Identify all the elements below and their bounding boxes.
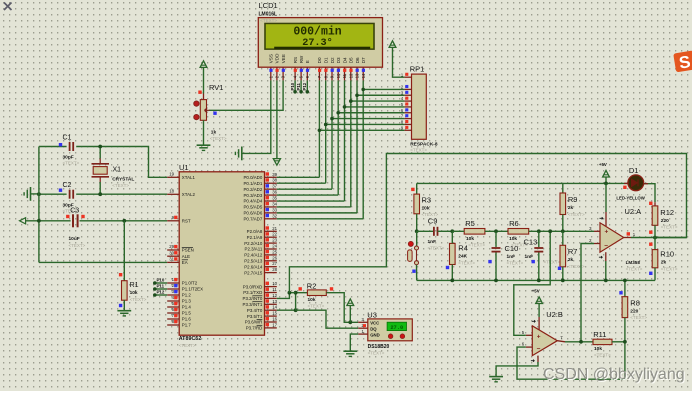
svg-text:R5: R5 — [465, 219, 475, 228]
svg-text:AT89C52: AT89C52 — [179, 336, 202, 342]
svg-text:12: 12 — [348, 73, 353, 78]
svg-text:<TEXT>: <TEXT> — [544, 259, 561, 264]
wire XTAL2/C2 row — [39, 193, 167, 195]
svg-text:R11: R11 — [593, 330, 606, 339]
svg-text:−: − — [537, 346, 541, 353]
wire RV1 bottom to ground — [203, 120, 205, 145]
svg-text:D6: D6 — [355, 57, 360, 63]
svg-text:D5: D5 — [349, 57, 354, 63]
pin 33 P0.6/AD6 of U1 — [265, 212, 277, 214]
wire RST row left of C3 — [26, 220, 71, 222]
pin 3 P1.2 of U1 — [167, 294, 179, 296]
svg-text:24K: 24K — [458, 253, 467, 259]
power +5V for RV1 — [200, 61, 207, 68]
wire R2 right to VCC node — [326, 293, 358, 323]
pin 4 of RP1 — [404, 100, 411, 102]
wire +5V to RV1 — [203, 67, 205, 93]
pin 10 P3.0/RXD of U1 — [265, 286, 277, 288]
svg-text:P3.4/T0: P3.4/T0 — [247, 308, 263, 313]
junction D1 bus — [324, 123, 328, 127]
wire P10 net stub — [294, 80, 296, 91]
junction D5 bus — [349, 99, 353, 103]
svg-text:P2.7/A15: P2.7/A15 — [244, 270, 263, 275]
wire C1 row to XTAL1 — [39, 147, 167, 178]
pin 5 of U2:B — [526, 334, 533, 336]
pin marker P1.1 — [174, 284, 177, 287]
svg-text:P2.0/A8: P2.0/A8 — [247, 229, 263, 234]
svg-text:D4: D4 — [342, 57, 347, 63]
svg-text:C13: C13 — [524, 237, 538, 246]
svg-text:P3.5/T1: P3.5/T1 — [247, 314, 263, 319]
wire LCD D3 to RP1 pin6 and P0.3 — [337, 80, 339, 112]
wire R1 bottom — [123, 300, 125, 311]
svg-text:<TEXT>: <TEXT> — [468, 242, 485, 247]
svg-text:<TEXT>: <TEXT> — [63, 161, 80, 166]
svg-text:P2.4/A12: P2.4/A12 — [244, 253, 263, 258]
pin 9 RST of U1 — [167, 220, 179, 222]
svg-text:P3.7/RD: P3.7/RD — [246, 326, 263, 331]
pin 2 of U3 — [358, 327, 368, 329]
svg-text:R6: R6 — [509, 219, 519, 228]
svg-text:+5V: +5V — [532, 289, 540, 294]
junction output/R12/R10 — [653, 236, 657, 240]
svg-text:LCD1: LCD1 — [259, 1, 278, 10]
svg-text:11: 11 — [342, 73, 347, 78]
wire U2:A V- to rail — [605, 252, 607, 261]
svg-text:10uF: 10uF — [69, 236, 80, 242]
pin marker 31 — [174, 257, 177, 260]
wire P3.4/T0 row — [277, 309, 296, 311]
svg-text:<TEXT>: <TEXT> — [428, 246, 445, 251]
junction R1 tap on RST row — [122, 219, 126, 223]
wire P12 net stub — [306, 80, 308, 91]
svg-text:10k: 10k — [422, 205, 430, 211]
pin 7 output of U2:B — [557, 341, 565, 342]
pin 26 P2.5/A13 of U1 — [265, 260, 277, 262]
svg-text:R1: R1 — [130, 282, 139, 289]
svg-text:13: 13 — [355, 73, 360, 78]
svg-text:11: 11 — [272, 287, 277, 292]
svg-text:<TEXT>: <TEXT> — [308, 303, 325, 308]
svg-text:1k: 1k — [211, 129, 217, 135]
svg-text:13: 13 — [272, 299, 277, 304]
pin 13 P3.3/INT1 of U1 — [265, 303, 277, 305]
svg-text:PSEN: PSEN — [182, 248, 194, 253]
svg-text:<TEXT>: <TEXT> — [661, 266, 678, 271]
ground for U2:B — [489, 376, 503, 378]
wire bottom rail — [417, 279, 655, 281]
pin 28 P2.7/A15 of U1 — [265, 272, 277, 274]
svg-text:29: 29 — [169, 244, 174, 249]
svg-text:EA: EA — [182, 260, 188, 265]
svg-text:15: 15 — [272, 311, 277, 316]
svg-text:C2: C2 — [63, 182, 72, 189]
pin 1 output of U2:A — [624, 237, 631, 239]
wire LCD D4 to RP1 pin5 and P0.4 — [344, 80, 346, 107]
pin 3 of U2:A — [594, 230, 600, 232]
svg-text:GND: GND — [370, 332, 380, 337]
net label P12 wire — [155, 294, 167, 296]
pin 24 P2.3/A11 of U1 — [265, 248, 277, 250]
pin 2 P1.1/T2EX of U1 — [167, 288, 179, 290]
svg-text:R7: R7 — [568, 247, 578, 256]
wire D1 cathode to R12 — [644, 184, 655, 203]
resistor R12 — [649, 202, 652, 205]
svg-text:12: 12 — [272, 293, 277, 298]
pin marker P1.3 — [174, 296, 177, 299]
svg-text:X1: X1 — [113, 167, 122, 174]
svg-text:CRYSTAL: CRYSTAL — [112, 176, 134, 182]
svg-text:P2.5/A13: P2.5/A13 — [244, 259, 263, 264]
ground below U3 — [343, 350, 357, 352]
svg-text:P2.1/A9: P2.1/A9 — [247, 235, 263, 240]
svg-text:17: 17 — [272, 322, 277, 327]
svg-text:E: E — [305, 60, 310, 63]
pin 22 P2.1/A9 of U1 — [265, 236, 277, 238]
pin 23 P2.2/A10 of U1 — [265, 242, 277, 244]
pin marker 9 — [174, 216, 177, 219]
pin 36 P0.3/AD3 of U1 — [265, 194, 277, 196]
wire U2:A output row — [631, 237, 687, 239]
svg-text:<TEXT>: <TEXT> — [69, 243, 86, 248]
svg-text:R9: R9 — [568, 195, 578, 204]
junction T0/R2/DQ — [294, 308, 298, 312]
svg-text:R2: R2 — [307, 282, 317, 291]
svg-text:32: 32 — [272, 213, 277, 218]
pin 39 P0.0/AD0 of U1 — [265, 176, 277, 178]
svg-text:<TEXT>: <TEXT> — [130, 297, 147, 302]
svg-text:P1.1/T2EX: P1.1/T2EX — [182, 287, 203, 292]
wire U3 GND to ground — [350, 334, 358, 351]
svg-text:R10: R10 — [660, 250, 674, 259]
junction R11/R8/feedback — [623, 340, 627, 344]
wire mic bottom to rail — [416, 265, 418, 281]
wire LCD D5 to RP1 pin4 and P0.5 — [350, 80, 352, 101]
pin 25 P2.4/A12 of U1 — [265, 254, 277, 256]
junction X1 bottom — [98, 192, 102, 196]
svg-text:<TEXT>: <TEXT> — [210, 136, 227, 141]
svg-text:19: 19 — [169, 172, 174, 177]
wire DQ from T0 junction — [296, 310, 359, 328]
wire VDD to terminal — [276, 80, 278, 158]
svg-text:LED-YELLOW: LED-YELLOW — [616, 195, 645, 200]
svg-text:C1: C1 — [63, 135, 72, 142]
wire +5V rail — [417, 182, 630, 184]
svg-text:220: 220 — [661, 218, 669, 224]
junction C9/R4/R5 — [450, 229, 454, 233]
logo S — [673, 50, 692, 73]
svg-text:LM358: LM358 — [626, 260, 641, 265]
svg-text:27: 27 — [272, 261, 277, 266]
svg-text:+: + — [605, 229, 609, 236]
pin 3 of RP1 — [404, 94, 411, 96]
svg-text:U1: U1 — [179, 163, 189, 172]
junction D7 bus — [361, 88, 365, 92]
pin 18 XTAL2 of U1 — [167, 193, 179, 195]
net label P11 wire — [155, 288, 167, 290]
svg-text:VDD: VDD — [275, 53, 280, 63]
wire VSS to ground — [242, 80, 271, 153]
wire VEE to RV1 wiper — [209, 80, 283, 110]
wire RST row right of C3 — [80, 220, 168, 222]
svg-text:36: 36 — [272, 190, 277, 195]
svg-text:D0: D0 — [317, 57, 322, 63]
junction D4 bus — [343, 105, 347, 109]
svg-text:R4: R4 — [458, 243, 468, 252]
wire P11 net stub — [300, 80, 302, 91]
svg-text:<TEXT>: <TEXT> — [661, 225, 678, 230]
pin 21 P2.0/A8 of U1 — [265, 230, 277, 232]
wire INT0 jog — [277, 293, 296, 299]
pin 29 PSEN of U1 — [167, 249, 179, 251]
crystal X1 — [99, 147, 101, 159]
capacitor C2 — [67, 189, 77, 199]
junction C13/rail/U2B input tap — [537, 279, 541, 283]
svg-text:C9: C9 — [428, 217, 438, 226]
pin 5 of RP1 — [404, 106, 411, 108]
svg-text:38: 38 — [272, 178, 277, 183]
svg-text:37: 37 — [272, 184, 277, 189]
svg-text:21: 21 — [272, 226, 277, 231]
svg-text:31: 31 — [169, 257, 174, 262]
svg-text:CSDN @bbxyliyang: CSDN @bbxyliyang — [543, 366, 685, 383]
pin 1 P1.0/T2 of U1 — [167, 282, 179, 284]
wire R7 bottom — [562, 267, 564, 281]
terminal arrow RST net — [20, 218, 26, 224]
svg-text:24: 24 — [272, 244, 277, 249]
svg-text:<TEXT>: <TEXT> — [112, 183, 129, 188]
svg-text:P1.0/T2: P1.0/T2 — [182, 281, 198, 286]
svg-text:39: 39 — [272, 172, 277, 177]
resistor R10 — [649, 243, 652, 246]
capacitor C1 — [67, 142, 77, 152]
svg-text:D7: D7 — [361, 57, 366, 63]
wire V+ to U2:A — [605, 183, 607, 212]
pin 16 P3.6/WR of U1 — [265, 321, 277, 323]
junction U2:A V-/rail — [604, 279, 608, 283]
wire C13 bottom — [538, 253, 540, 281]
ground for LCD VSS — [241, 147, 243, 161]
svg-text:P3.0/RXD: P3.0/RXD — [243, 284, 263, 289]
svg-text:U2:A: U2:A — [625, 207, 642, 216]
svg-text:P0.3/AD3: P0.3/AD3 — [244, 193, 263, 198]
resistor R8 — [624, 280, 626, 296]
svg-text:2k: 2k — [568, 205, 574, 211]
svg-text:P11: P11 — [157, 283, 165, 288]
power +5V for RP1 — [389, 41, 396, 48]
svg-text:D3: D3 — [336, 57, 341, 63]
svg-text:2k: 2k — [568, 257, 574, 263]
wire LCD D2 to RP1 pin7 and P0.2 — [331, 80, 333, 118]
svg-text:P0.7/AD7: P0.7/AD7 — [244, 217, 263, 222]
svg-text:10: 10 — [336, 73, 341, 78]
pin 9 of RP1 — [404, 129, 411, 131]
svg-text:DQ: DQ — [370, 327, 377, 332]
wire R4 bottom — [451, 265, 453, 281]
svg-text:220: 220 — [630, 308, 638, 314]
svg-text:−: − — [604, 242, 608, 249]
svg-text:2k: 2k — [661, 260, 667, 266]
svg-text:1nF: 1nF — [525, 254, 534, 260]
resistor R1 — [119, 273, 122, 276]
junction +5V rail/U2:A V+ — [604, 182, 608, 186]
wire LCD D0 to RP1 pin9 and P0.0 — [318, 80, 320, 130]
wire left vertical bus — [38, 147, 40, 263]
svg-text:18: 18 — [169, 189, 174, 194]
wire R6 to opamp input — [529, 230, 594, 232]
svg-text:P2.6/A14: P2.6/A14 — [244, 264, 263, 269]
svg-text:P3.2/INT0: P3.2/INT0 — [243, 296, 263, 301]
svg-text:<TEXT>: <TEXT> — [626, 267, 643, 272]
pin 2 of RP1 — [404, 88, 411, 90]
svg-text:U3: U3 — [367, 310, 377, 319]
svg-text:VEE: VEE — [281, 54, 286, 63]
svg-text:14: 14 — [361, 73, 366, 78]
junction D3 bus — [336, 111, 340, 115]
svg-text:P3.1/TXD: P3.1/TXD — [243, 290, 262, 295]
pin 38 P0.1/AD1 of U1 — [265, 182, 277, 184]
pin 6 P1.5 of U1 — [167, 312, 179, 314]
origin marker — [4, 3, 12, 11]
svg-text:<TEXT>: <TEXT> — [568, 212, 585, 217]
junction R2 left / INT0 loop — [294, 291, 298, 295]
svg-text:<TEXT>: <TEXT> — [368, 350, 385, 355]
pin marker 29 — [174, 245, 177, 248]
svg-text:P2.2/A10: P2.2/A10 — [244, 241, 263, 246]
resistor R9 — [562, 183, 564, 193]
svg-text:XTAL1: XTAL1 — [182, 175, 196, 180]
svg-text:P0.2/AD2: P0.2/AD2 — [244, 187, 263, 192]
resistor R4 — [450, 243, 456, 264]
svg-text:R8: R8 — [630, 298, 640, 307]
svg-text:<TEXT>: <TEXT> — [458, 260, 475, 265]
svg-text:P0.4/AD4: P0.4/AD4 — [244, 199, 263, 204]
svg-text:P0.0/AD0: P0.0/AD0 — [244, 175, 263, 180]
svg-text:P10: P10 — [290, 82, 295, 90]
pin 2 of U2:A — [594, 243, 600, 245]
svg-text:14: 14 — [272, 305, 277, 310]
svg-text:P1.2: P1.2 — [182, 293, 192, 298]
net label P10 wire — [155, 282, 167, 284]
svg-text:P1.3: P1.3 — [182, 299, 192, 304]
svg-text:22: 22 — [272, 232, 277, 237]
junction INT0 loop corner — [288, 291, 292, 295]
wire C9 to R5 node — [438, 230, 453, 232]
junction +5V/VCC node — [348, 320, 352, 324]
svg-text:25: 25 — [272, 249, 277, 254]
wire R10 bottom to rail — [654, 268, 656, 281]
junction RST/vertical bus — [37, 219, 41, 223]
wire EA row — [39, 261, 167, 263]
svg-text:P3.3/INT1: P3.3/INT1 — [243, 302, 263, 307]
pin 32 P0.7/AD7 of U1 — [265, 218, 277, 220]
pin 31 EA of U1 — [167, 261, 179, 263]
svg-text:R3: R3 — [422, 195, 432, 204]
svg-text:10k: 10k — [466, 236, 474, 242]
wire R12 bottom — [654, 225, 656, 237]
svg-text:<TEXT>: <TEXT> — [179, 343, 196, 348]
LCD screen — [264, 23, 375, 50]
svg-text:26: 26 — [272, 255, 277, 260]
pin marker P1.2 — [174, 290, 177, 293]
svg-text:<TEXT>: <TEXT> — [507, 260, 524, 265]
wire U2:B + input from signal node — [514, 231, 550, 335]
svg-text:35: 35 — [272, 196, 277, 201]
svg-text:10k: 10k — [594, 346, 602, 352]
junction R5/R6/C10 — [494, 229, 498, 233]
svg-text:RV1: RV1 — [209, 83, 223, 92]
wire U2:B - input from R11/R8 node — [517, 342, 625, 379]
resistor R3 — [411, 188, 414, 191]
pin 19 XTAL1 of U1 — [167, 176, 179, 178]
wire C10 bottom — [495, 253, 497, 281]
wire LCD D6 to RP1 pin3 and P0.6 — [356, 80, 358, 95]
terminal arrow below VDD — [273, 159, 280, 166]
pin 7 P1.6 of U1 — [167, 318, 179, 320]
pin 8 of RP1 — [404, 123, 411, 125]
wire R3 bottom — [416, 214, 418, 232]
pin 14 P3.4/T0 of U1 — [265, 309, 277, 311]
wire U2:A inverting input down to U2:B output — [581, 244, 594, 342]
junction D2 bus — [330, 117, 334, 121]
power +5V for U3 — [347, 299, 354, 306]
pin 1 of U3 — [358, 333, 368, 335]
svg-text:P1.4: P1.4 — [182, 305, 192, 310]
wire LCD D7 to RP1 pin2 and P0.7 — [362, 80, 364, 89]
svg-text:+5V: +5V — [599, 162, 607, 167]
svg-text:P0.5/AD5: P0.5/AD5 — [244, 205, 263, 210]
pin 7 of RP1 — [404, 118, 411, 120]
pin marker P1.0 — [174, 278, 177, 281]
svg-text:28: 28 — [272, 267, 277, 272]
svg-text:VCC: VCC — [370, 321, 379, 326]
svg-text:D1: D1 — [629, 166, 639, 175]
svg-text:P10: P10 — [157, 277, 165, 282]
svg-text:P11: P11 — [296, 82, 301, 90]
svg-text:P0.6/AD6: P0.6/AD6 — [244, 211, 263, 216]
svg-text:27.0: 27.0 — [390, 325, 403, 331]
svg-text:1nF: 1nF — [428, 239, 437, 245]
svg-text:33: 33 — [272, 207, 277, 212]
svg-text:1nF: 1nF — [507, 254, 516, 260]
svg-text:<TEXT>: <TEXT> — [594, 352, 611, 357]
pin 27 P2.6/A14 of U1 — [265, 266, 277, 268]
pin 6 of U2:B — [526, 346, 533, 348]
svg-text:RW: RW — [299, 55, 304, 63]
pin 3 of U3 — [358, 321, 368, 323]
svg-text:P0.1/AD1: P0.1/AD1 — [244, 181, 263, 186]
svg-text:10k: 10k — [509, 236, 517, 242]
wire R5 to C10 node — [485, 230, 508, 232]
svg-text:000/min: 000/min — [293, 25, 341, 38]
svg-text:RS: RS — [293, 57, 298, 63]
svg-text:<TEXT>: <TEXT> — [410, 148, 427, 153]
junction R3/C9/mic — [415, 229, 419, 233]
pin 6 of RP1 — [404, 112, 411, 114]
junction D6 bus — [355, 93, 359, 97]
svg-text:D2: D2 — [330, 57, 335, 63]
svg-text:VSS: VSS — [269, 54, 274, 63]
pin marker P1.7 — [174, 320, 177, 323]
wire U2:B V- to ground — [537, 356, 539, 362]
resistor R7 — [562, 231, 564, 245]
svg-text:P1.5: P1.5 — [182, 311, 192, 316]
junction R6/C13 — [537, 229, 541, 233]
svg-text:10k: 10k — [130, 290, 138, 296]
wire +5V to RP1 pin1 — [393, 47, 405, 77]
svg-text:D1: D1 — [324, 57, 329, 63]
svg-text:P12: P12 — [157, 289, 165, 294]
